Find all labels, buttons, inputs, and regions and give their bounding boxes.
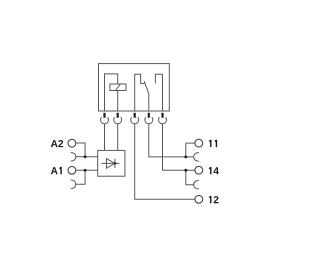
wire pin1 down to input box [104, 124, 106, 150]
wire NC fixed contact riser (pin3) [135, 74, 141, 111]
label A2 [51, 140, 63, 147]
diode V1 cathode bar [114, 159, 116, 168]
hook contact A1 [71, 180, 76, 188]
terminal circle 12 [195, 195, 203, 203]
input protection box [98, 150, 125, 176]
hook contact 14 [194, 181, 199, 189]
wire coil top loop (pin1 to coil top) [105, 74, 118, 111]
coil diagonal slash [116, 84, 121, 91]
relay module outline box [99, 64, 170, 111]
wire pin4 to node 11 [149, 124, 186, 157]
pin blade 4 [148, 113, 150, 118]
wire NO fixed contact riser (pin5) [155, 74, 162, 111]
plug-in socket cup pin4 [145, 117, 153, 124]
terminal circle 14 [195, 166, 203, 174]
plug-in socket cup pin2 [114, 117, 122, 124]
pin blade 2 [117, 113, 119, 118]
pin blade 5 [161, 113, 163, 118]
hook contact 11 [194, 153, 199, 161]
wire A2 terminal to node A2 [76, 143, 85, 157]
NC contact tick [141, 83, 145, 85]
plug-in socket cup pin5 [158, 117, 166, 124]
junction node A1 [84, 169, 87, 172]
plug-in socket cup pin1 [101, 117, 109, 124]
wire pin3 to terminal 12 [135, 124, 195, 199]
label 12 [209, 196, 219, 203]
terminal circle A1 [68, 166, 76, 174]
wire hook A2 to input box [76, 156, 98, 158]
label A1 [51, 167, 62, 174]
wire pin5 to terminal 14 [163, 124, 195, 170]
wire coil bottom to pin2 [117, 91, 119, 112]
hook contact A2 [71, 153, 76, 161]
terminal circle 11 [195, 139, 203, 147]
wire node 14 drop to hook 14 [186, 170, 194, 185]
wire node 11 riser to terminal 11 [186, 143, 195, 157]
junction node A2 [84, 155, 87, 158]
junction diode cathode [114, 162, 116, 164]
junction node 14 [184, 169, 187, 172]
pin blade 1 [103, 113, 105, 118]
wire A1 terminal to input box [76, 169, 98, 171]
junction node 11 [184, 155, 187, 158]
diode V1 triangle [107, 159, 115, 169]
relay coil K1 [110, 84, 126, 91]
wire node 11 to hook 11 [186, 156, 194, 158]
wire node A1 drop to hook A1 [76, 170, 85, 184]
plug-in socket cup pin3 [131, 117, 139, 124]
label 11 [209, 140, 217, 147]
terminal circle A2 [68, 139, 76, 147]
diode V1 axis wire [102, 162, 120, 164]
wire pin2 down to input box [117, 124, 119, 150]
pin blade 3 [134, 113, 136, 118]
label 14 [209, 167, 219, 174]
contact moving arm and pole wire (pin4) [144, 81, 149, 111]
